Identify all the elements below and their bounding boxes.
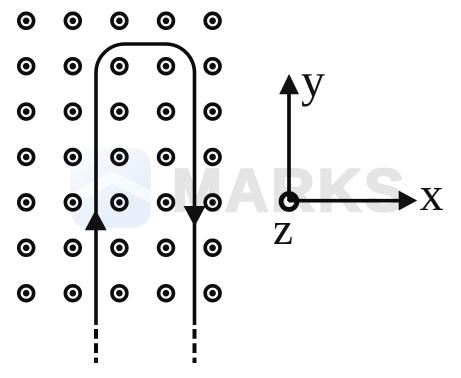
magnetic field symbols row 7 — [19, 286, 220, 301]
origin z-axis out-of-page symbol — [281, 194, 297, 210]
y-axis arrowhead — [279, 74, 299, 94]
x-axis — [289, 199, 402, 203]
svg-text:y: y — [301, 55, 325, 108]
current arrow down on right wire — [184, 206, 206, 227]
x-axis arrowhead — [399, 191, 418, 211]
y-axis — [287, 90, 291, 201]
magnetic field symbols row 2 — [19, 59, 220, 74]
left wire dashed continuation — [94, 329, 98, 363]
magnetic field symbols row 3 — [19, 104, 220, 119]
magnetic field symbols row 1 — [19, 13, 220, 28]
svg-text:z: z — [273, 204, 293, 254]
svg-text:x: x — [420, 168, 444, 221]
magnetic field symbols row 4 — [19, 150, 220, 165]
magnetic field symbols row 6 — [19, 240, 220, 255]
current arrow up on left wire — [85, 210, 107, 231]
hairpin wire loop — [96, 44, 195, 325]
magnetic field symbols row 5 — [19, 195, 220, 210]
right wire dashed continuation — [193, 329, 197, 363]
